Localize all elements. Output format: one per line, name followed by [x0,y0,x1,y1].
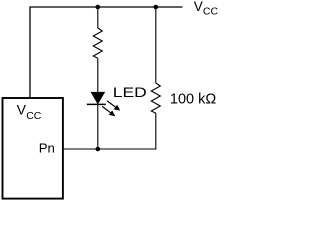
label VCC (top right net) [194,0,219,18]
LED light arrow 2 [102,106,115,116]
wire R1 to LED anode [97,58,99,92]
svg-text:V: V [17,101,27,117]
resistor R1 (LED series) [93,28,102,58]
svg-text:Pn: Pn [39,140,55,155]
wire rail to resistor R2 [155,7,157,83]
label VCC (inside box) [17,101,42,122]
svg-text:LED: LED [113,84,147,100]
microcontroller box U1 [3,98,63,199]
wire R2 to Pn line [63,113,156,149]
wire box top to VCC rail [30,7,183,98]
node A junction dot top middle [96,5,101,10]
svg-text:V: V [194,0,203,14]
wire rail to resistor R1 [97,7,99,28]
svg-text:100 kΩ: 100 kΩ [170,92,216,108]
node C junction dot on Pn line [96,147,101,152]
LED D1 cathode bar [87,103,106,105]
LED light arrow 1 [107,101,120,111]
node B junction dot top right [154,5,159,10]
LED D1 anode triangle [91,92,104,103]
wire LED cathode to node C [97,104,99,149]
svg-text:CC: CC [26,110,42,122]
svg-text:CC: CC [203,6,219,18]
resistor R2 pull-up [151,83,160,113]
